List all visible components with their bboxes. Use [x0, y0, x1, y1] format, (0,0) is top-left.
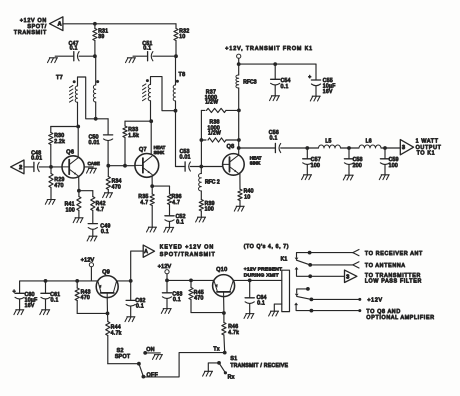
resistor R34 470 with ground — [103, 166, 122, 198]
resistor R33 1.5k — [123, 121, 139, 166]
junction rail/RFC3 — [237, 62, 241, 66]
junction C50/R34 node — [106, 164, 110, 168]
output arrow 3: 1 WATT OUTPUT TO K1 — [385, 139, 442, 157]
wire Q9 base lead — [106, 298, 108, 314]
S2 blade to OFF contact — [139, 364, 158, 379]
svg-text:100: 100 — [66, 207, 75, 213]
svg-text:10: 10 — [179, 34, 185, 40]
wire T8 bottom node to R33 top — [125, 120, 151, 122]
svg-text:470: 470 — [54, 183, 63, 189]
terminal +12V (middle) — [158, 264, 172, 280]
relay contact set 2: +12V switch — [295, 287, 383, 303]
junction R32/C51/T8 — [174, 54, 178, 58]
svg-text:0.1: 0.1 — [176, 220, 184, 226]
capacitor C64 0.1 with ground — [244, 280, 267, 318]
svg-text:TRANSMIT: TRANSMIT — [14, 30, 47, 36]
svg-text:KEYED +12V ON: KEYED +12V ON — [160, 244, 214, 250]
relay contact to transmitter filter — [295, 267, 422, 285]
resistor R31 39 — [93, 24, 109, 56]
svg-text:SINK: SINK — [250, 160, 261, 165]
resistor R45 470 — [189, 280, 204, 312]
svg-text:+12V, TRANSMIT FROM K1: +12V, TRANSMIT FROM K1 — [225, 46, 313, 52]
switch S2 SPOT — [108, 348, 141, 365]
svg-text:L6: L6 — [366, 138, 372, 144]
junction R43 top — [75, 279, 79, 283]
junction rail/C54 — [273, 62, 277, 66]
svg-text:SINK: SINK — [154, 150, 165, 155]
svg-text:4.7: 4.7 — [172, 200, 180, 206]
wire Q6 emitter to node — [78, 176, 80, 190]
capacitor C58 200 with ground — [343, 148, 363, 180]
resistor R35 4.7 with ground — [138, 186, 156, 232]
capacitor C61 0.1 with ground — [40, 281, 61, 315]
relay contact to Q8 and optional amplifier — [294, 303, 435, 321]
svg-text:OFF: OFF — [147, 372, 158, 378]
wire C53 to Q8 base — [190, 166, 222, 168]
svg-text:T8: T8 — [179, 72, 186, 78]
junction R37 right — [237, 109, 241, 113]
terminal +12V (left) — [81, 258, 95, 281]
capacitor C59 100 with ground — [379, 148, 399, 180]
capacitor C55 10uF 16V electrolytic with ground — [308, 64, 336, 101]
relay antenna line — [308, 262, 405, 269]
wire emitter node to R42 — [79, 191, 93, 197]
wire Q9 collector to node — [117, 280, 131, 282]
svg-text:0.01: 0.01 — [31, 155, 42, 161]
svg-text:TO K1: TO K1 — [417, 151, 436, 157]
capacitor C52 0.1 with ground — [164, 214, 186, 232]
junction Tx node — [223, 351, 227, 355]
transformer T8 — [143, 56, 186, 121]
svg-text:+12V PRESENT: +12V PRESENT — [244, 266, 282, 272]
wire top rail from triangle A to R32 — [63, 23, 176, 25]
svg-text:470: 470 — [112, 184, 121, 190]
svg-text:S1: S1 — [230, 356, 237, 362]
junction C61 — [44, 279, 48, 283]
svg-text:Q10: Q10 — [216, 267, 227, 273]
svg-text:0.1: 0.1 — [270, 136, 278, 142]
relay K1 coil — [269, 257, 290, 316]
wire R43 to Q9 base node — [77, 312, 107, 314]
S2 ON contact with ground — [143, 347, 162, 359]
svg-text:A: A — [144, 249, 148, 255]
capacitor C54 0.1 with ground — [270, 64, 291, 101]
wire +12V rail to C55 — [239, 63, 316, 65]
capacitor C56 0.1 (coupling) — [239, 130, 308, 153]
svg-text:RFC 2: RFC 2 — [205, 179, 220, 185]
svg-text:0.01: 0.01 — [180, 155, 191, 161]
wire middle +12V rail to Q10 — [167, 279, 214, 281]
capacitor C49 0.1 with ground — [87, 224, 111, 241]
svg-text:DURING XMIT: DURING XMIT — [244, 273, 279, 279]
svg-text:SPOT: SPOT — [115, 354, 131, 360]
junction C64 — [248, 279, 252, 283]
junction L6/C59 — [383, 146, 387, 150]
wire RFC3 to Q8 collector node — [238, 110, 240, 148]
svg-text:0.1: 0.1 — [257, 300, 265, 306]
svg-text:3: 3 — [346, 274, 349, 280]
svg-text:470: 470 — [81, 295, 90, 301]
svg-text:4.7: 4.7 — [140, 200, 148, 206]
resistor R29 470 with ground — [45, 167, 64, 204]
capacitor C47 0.1 with ground — [48, 41, 95, 63]
svg-text:16V: 16V — [25, 303, 35, 309]
junction T7 bottom / Q6 collector node — [76, 125, 80, 129]
svg-text:4.7k: 4.7k — [111, 330, 122, 336]
wire T7 to Q6 collector — [77, 127, 79, 158]
svg-text:1.5k: 1.5k — [128, 133, 139, 139]
svg-text:0.1: 0.1 — [143, 46, 151, 52]
junction Q6 base node — [49, 165, 53, 169]
svg-text:ON: ON — [146, 347, 154, 353]
resistor R30 2.2k — [49, 127, 66, 167]
svg-text:A: A — [58, 22, 62, 28]
svg-text:LOW PASS FILTER: LOW PASS FILTER — [365, 279, 422, 285]
svg-text:1/2W: 1/2W — [208, 130, 221, 136]
node/source arrow: +12V ON SPOT/TRANSMIT input (triangle A) — [14, 17, 63, 36]
svg-text:2: 2 — [19, 165, 22, 171]
svg-text:Q6: Q6 — [66, 149, 74, 155]
inductor L5 — [307, 138, 349, 148]
svg-text:0.01: 0.01 — [89, 140, 100, 146]
svg-text:0.1: 0.1 — [51, 297, 59, 303]
svg-text:470: 470 — [194, 295, 203, 301]
svg-text:L5: L5 — [325, 138, 331, 144]
junction R38 right — [237, 138, 241, 142]
svg-text:RFC3: RFC3 — [243, 79, 256, 85]
terminal +12V TRANSMIT FROM K1 — [225, 46, 313, 64]
junction Q7 emitter node — [150, 184, 154, 188]
capacitor C48 0.01 — [31, 151, 62, 172]
junction C56/C57/L5 — [305, 146, 309, 150]
svg-text:Q8: Q8 — [227, 144, 235, 150]
junction R33 bottom node — [123, 164, 127, 168]
svg-text:Q7: Q7 — [139, 147, 147, 153]
svg-text:0.1: 0.1 — [70, 46, 78, 52]
junction Q8 collector node — [237, 146, 241, 150]
resistor R37 1000 1/2W (horizontal) — [201, 90, 239, 167]
svg-text:0.1: 0.1 — [173, 297, 181, 303]
svg-text:100: 100 — [389, 163, 398, 169]
transistor Q6 — [62, 149, 84, 178]
arrow A output: KEYED +12V ON SPOT/TRANSMIT — [131, 244, 216, 281]
resistor R40 10 with ground — [234, 189, 254, 211]
wire Q10 collector to K1 coil — [233, 279, 281, 281]
resistor R41 100 with ground — [65, 191, 84, 223]
capacitor C50 0.01 — [89, 119, 113, 166]
capacitor C51 0.1 with ground — [126, 41, 177, 63]
wire Q8 collector — [238, 148, 240, 155]
relay blade 1 — [297, 260, 311, 265]
svg-text:TRANSMIT / RECEIVE: TRANSMIT / RECEIVE — [230, 363, 288, 369]
capacitor C60 10uF 16V electrolytic with ground — [13, 289, 38, 315]
resistor R36 4.7 — [167, 194, 181, 216]
resistor R44 4.7k — [106, 313, 122, 363]
wire T8 tap down to C53 — [175, 111, 177, 167]
svg-text:39: 39 — [98, 34, 104, 40]
svg-text:TO ANTENNA: TO ANTENNA — [365, 263, 406, 269]
junction Q9 base / R44 — [106, 312, 110, 316]
label Tx — [213, 346, 220, 352]
svg-text:3: 3 — [402, 145, 405, 151]
wire S2 OFF to Tx node — [143, 353, 224, 377]
junction R45 top — [189, 279, 193, 283]
junction Q10 base / R46 — [222, 311, 226, 315]
svg-text:OPTIONAL AMPLIFIER: OPTIONAL AMPLIFIER — [366, 315, 434, 321]
svg-text:100: 100 — [311, 163, 320, 169]
svg-text:2.2k: 2.2k — [54, 139, 65, 145]
resistor R38 1000 1/2W (horizontal) — [201, 119, 239, 142]
inductor L6 — [349, 138, 385, 148]
junction Q9 collector node — [129, 279, 133, 283]
svg-text:100: 100 — [205, 206, 214, 212]
svg-text:T7: T7 — [56, 75, 63, 81]
svg-text:+: + — [308, 75, 311, 81]
svg-text:1/2W: 1/2W — [205, 100, 218, 106]
resistor R43 470 — [75, 281, 91, 314]
transistor Q9 (PNP switch) — [96, 270, 118, 298]
svg-text:Rx: Rx — [228, 375, 235, 381]
junction T8 tap node — [174, 109, 178, 113]
label (TO Q's 4, 6, 7) — [244, 244, 289, 250]
resistor R46 4.7k — [222, 313, 239, 353]
junction R38 left — [200, 138, 204, 142]
capacitor C53 0.01 — [176, 149, 191, 171]
relay contact set 1: receiver/antenna — [295, 250, 423, 261]
svg-text:0.1: 0.1 — [101, 229, 109, 235]
svg-text:4.7: 4.7 — [96, 207, 104, 213]
resistor R32 10 — [174, 24, 190, 56]
transistor Q10 (PNP switch) — [213, 267, 235, 297]
svg-text:Q9: Q9 — [102, 270, 110, 276]
junction R31/C47/T7 — [93, 54, 97, 58]
capacitor C63 0.1 with ground — [161, 280, 182, 313]
svg-text:0.1: 0.1 — [281, 84, 289, 90]
svg-text:16V: 16V — [323, 89, 333, 95]
wire C50 to Q7 base — [108, 165, 135, 167]
svg-text:200: 200 — [353, 163, 362, 169]
resistor R42 4.7 — [91, 197, 106, 224]
junction C63 — [165, 279, 169, 283]
junction T8 bottom / R33 / Q7 collector node — [149, 119, 153, 123]
wire Q8 emitter to R40 — [239, 174, 241, 190]
capacitor C62 0.1 with ground — [125, 281, 146, 322]
svg-text:Tx: Tx — [213, 346, 220, 352]
transistor Q7 with heat sink label — [135, 145, 166, 177]
junction on receiver line — [308, 251, 312, 255]
svg-text:+12V: +12V — [158, 264, 172, 270]
wire Q10 base lead — [223, 297, 225, 313]
junction T7 tap node — [94, 117, 98, 121]
transformer T7 — [56, 56, 99, 126]
wire R45 to Q10 base node — [191, 312, 224, 314]
svg-text:+12V: +12V — [367, 297, 382, 303]
svg-text:SPOT/TRANSMIT: SPOT/TRANSMIT — [160, 252, 216, 258]
svg-text:1 WATT: 1 WATT — [416, 139, 439, 145]
svg-text:4.7k: 4.7k — [228, 330, 239, 336]
wire emitter node to R36 — [152, 186, 169, 194]
svg-text:+: + — [13, 289, 16, 295]
junction Q8 base node (R37/R38/RFC2) — [199, 165, 203, 169]
wire bottom-left +12V rail — [20, 281, 98, 293]
capacitor C57 100 with ground — [302, 148, 321, 180]
wire Q7 emitter to node — [151, 176, 153, 186]
Q6 case lead with ground — [84, 161, 100, 173]
svg-text:0.1: 0.1 — [136, 304, 144, 310]
inductor RFC3 — [236, 64, 257, 110]
svg-text:CASE: CASE — [88, 161, 100, 166]
wire Q6 collector node to R30 — [51, 126, 78, 128]
transistor Q8 with heat sink label — [223, 144, 262, 175]
junction L5/L6/C58 — [347, 146, 351, 150]
svg-text:(TO Q's 4, 6, 7): (TO Q's 4, 6, 7) — [244, 244, 289, 250]
junction at R31 top — [93, 22, 97, 26]
junction Q6 emitter node — [77, 189, 81, 193]
label +12V PRESENT DURING XMIT — [244, 266, 282, 278]
svg-text:K1: K1 — [281, 257, 288, 263]
wire T7 tap to C50 — [96, 118, 108, 120]
node/source arrow: input 2 (triangle) — [11, 160, 34, 174]
wire to Q7 collector — [150, 121, 152, 154]
switch S1 TRANSMIT/RECEIVE — [203, 356, 289, 380]
inductor RFC2 and resistor R39 100 with ground — [196, 167, 220, 223]
svg-text:TO RECEIVER ANT: TO RECEIVER ANT — [365, 251, 423, 257]
svg-text:10: 10 — [244, 194, 250, 200]
